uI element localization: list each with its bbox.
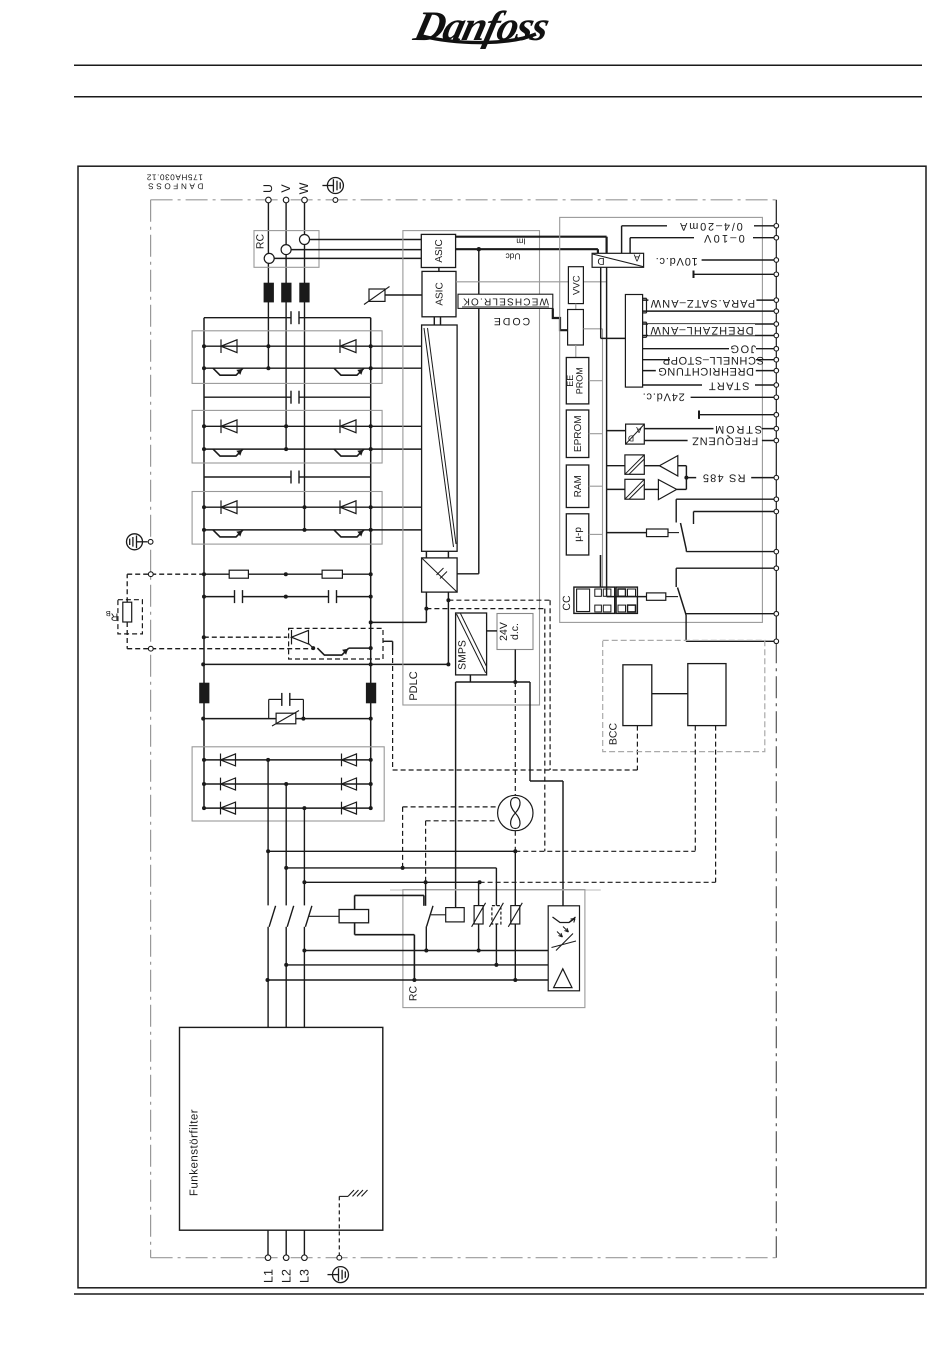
svg-text:VVC: VVC bbox=[571, 275, 582, 295]
terminal L3 bbox=[302, 1255, 308, 1261]
brake diode bbox=[292, 630, 309, 644]
24V pin bbox=[514, 650, 516, 683]
RS485 feed 2 bbox=[607, 488, 625, 490]
IGBT module M2 bbox=[192, 410, 382, 463]
module M3 right IGBT bbox=[334, 530, 364, 537]
svg-text:Funkenstörfilter: Funkenstörfilter bbox=[189, 1109, 201, 1196]
balance resistor wire bbox=[204, 573, 371, 575]
RAM bus stub bbox=[589, 485, 603, 487]
heatsink thermistor bbox=[369, 289, 385, 301]
IGBT module M1 bbox=[192, 331, 382, 384]
VVC box bbox=[568, 267, 583, 304]
svg-text:D: D bbox=[628, 434, 634, 444]
wire chopper to PDLC bbox=[371, 621, 427, 623]
terminal L1 bbox=[265, 1255, 271, 1261]
label STROM bbox=[714, 423, 762, 434]
rectifier row 2 left diode bbox=[221, 778, 236, 791]
terminal PE bottom bbox=[337, 1255, 342, 1260]
D/A converter U2 bbox=[626, 424, 645, 444]
snubber bus 3 bbox=[268, 979, 549, 981]
common terminal 1 bbox=[693, 271, 695, 279]
net A dashed (PDLC to fan line) bbox=[426, 608, 544, 610]
RS485 tx buffer bbox=[658, 480, 676, 500]
common terminal 2 bbox=[698, 411, 700, 419]
svg-text:0–10V: 0–10V bbox=[702, 232, 745, 244]
svg-text:175HA030.12: 175HA030.12 bbox=[146, 173, 203, 182]
footer rule bbox=[74, 1293, 924, 1295]
label FREQUENZ bbox=[688, 435, 762, 446]
contactor coil top wire bbox=[354, 895, 356, 909]
fan motor bbox=[498, 795, 533, 830]
brake gate lead bbox=[383, 640, 393, 642]
svg-text:EPROM: EPROM bbox=[573, 415, 584, 452]
phase tap W junctions bbox=[303, 505, 307, 509]
module M2 left freewheel diode bbox=[221, 420, 237, 434]
rectifier row 2 right diode bbox=[342, 778, 357, 791]
filter output L1 bbox=[267, 1230, 269, 1258]
wire motor V bbox=[285, 200, 287, 449]
relay 2 contact bbox=[676, 567, 776, 569]
rectifier AC input L2 bbox=[285, 784, 287, 905]
RC sensor block bbox=[254, 231, 319, 268]
relay 1 coil bbox=[607, 532, 647, 534]
rectifier row 1 left diode bbox=[221, 754, 236, 767]
code wire (thick) bbox=[553, 308, 568, 330]
EPROM box bbox=[566, 410, 589, 458]
24V to opto wire bbox=[529, 682, 531, 781]
filter capacitor loop bbox=[268, 699, 270, 718]
optocoupler left pin bbox=[425, 592, 427, 622]
wire FREQUENZ bbox=[644, 440, 776, 442]
DC bus rail left bbox=[203, 318, 205, 808]
svg-text:PDLC: PDLC bbox=[408, 671, 420, 700]
terminal V bbox=[283, 197, 289, 203]
svg-text:RC: RC bbox=[255, 234, 267, 250]
svg-text:U: U bbox=[261, 184, 275, 193]
svg-text:W: W bbox=[297, 182, 311, 194]
earth symbol bottom bbox=[328, 1267, 349, 1283]
snubber bus 2 bbox=[286, 964, 548, 966]
control terminal strip rail bbox=[775, 200, 777, 642]
brake IGBT bbox=[311, 646, 315, 650]
svg-text:V: V bbox=[279, 184, 293, 193]
svg-text:A: A bbox=[633, 251, 640, 262]
SMPS box bbox=[456, 613, 487, 675]
header rule 2 bbox=[74, 96, 922, 98]
svg-text:DANFOSS: DANFOSS bbox=[146, 182, 204, 191]
SMPS output wire bbox=[469, 675, 471, 682]
wire 24Vdc bbox=[691, 396, 777, 398]
fuse U bbox=[264, 283, 273, 302]
wire DC mid link bbox=[203, 663, 448, 665]
bus link mid with capacitor bbox=[204, 396, 291, 398]
digital input wire SCHNELL&#8211;STOPP bbox=[643, 359, 777, 361]
brake resistor RB dashed outline bbox=[118, 600, 142, 634]
thermistor wire bbox=[385, 294, 422, 296]
fuse V bbox=[282, 283, 291, 302]
svg-text:µ-p: µ-p bbox=[573, 527, 584, 542]
digital input wire DREHRICHTUNG bbox=[643, 370, 777, 372]
module M1 emitter row wire bbox=[204, 367, 422, 369]
brake diode feed (dashed) bbox=[204, 636, 287, 638]
label DREHRICHTUNG bbox=[656, 365, 756, 376]
RC snubber box bbox=[403, 890, 585, 1008]
brake chopper dashed box bbox=[289, 628, 383, 659]
wire 10Vdc bbox=[702, 259, 777, 261]
EE PROM box bbox=[566, 358, 589, 404]
fan left upper dashed bbox=[403, 806, 498, 808]
earth symbol left bbox=[127, 534, 148, 550]
sensor circle U bbox=[264, 253, 274, 263]
PDLC power drive logic box bbox=[403, 231, 540, 705]
VVC stub bbox=[575, 304, 577, 310]
enclosure boundary left (dash-dot) bbox=[150, 200, 152, 1258]
interface to bus bbox=[583, 328, 602, 330]
terminal W bbox=[302, 197, 308, 203]
inrush relay contact bbox=[425, 882, 427, 906]
photodiode symbol bbox=[552, 934, 577, 951]
module M2 diode row wire bbox=[204, 425, 422, 427]
RB wire to DC+ (dashed) bbox=[126, 574, 128, 602]
digital input block bbox=[625, 295, 642, 388]
WECHSELR.OK box bbox=[458, 294, 553, 308]
varistor 2 dashed bbox=[495, 868, 497, 906]
RB wire to chopper (dashed) bbox=[126, 622, 128, 649]
terminal PE top bbox=[333, 198, 338, 203]
svg-text:DREHRICHTUNG: DREHRICHTUNG bbox=[658, 365, 754, 377]
internal gray bus bbox=[456, 281, 607, 283]
svg-text:DREHZAHL–ANW: DREHZAHL–ANW bbox=[649, 324, 753, 336]
svg-text:SMPS: SMPS bbox=[457, 640, 469, 670]
inrush relay coil bbox=[431, 914, 446, 916]
BCC out 2 dashed bbox=[715, 726, 717, 883]
label PARA.SATZ&#8211;ANW bbox=[648, 297, 756, 308]
gate driver stubs bbox=[433, 317, 435, 325]
wire Im (thick) bbox=[456, 236, 607, 238]
snubber bus 1 bbox=[304, 950, 548, 952]
svg-text:WECHSELR.OK: WECHSELR.OK bbox=[462, 296, 549, 307]
memory bus bbox=[602, 329, 604, 587]
gate driver box bbox=[422, 325, 458, 551]
svg-text:Im: Im bbox=[516, 236, 525, 246]
svg-text:24Vd.c.: 24Vd.c. bbox=[642, 390, 685, 402]
DC choke left bbox=[200, 683, 209, 703]
DC link capacitor right bbox=[329, 590, 337, 603]
balance resistor left bbox=[229, 570, 248, 578]
SMPS to 24V link bbox=[487, 630, 497, 632]
contactor coil link bbox=[308, 915, 339, 917]
RB terminal bottom bbox=[148, 646, 153, 651]
relay 2 coil bbox=[607, 596, 647, 598]
phototransistor symbol bbox=[553, 917, 576, 923]
phase tap V junctions bbox=[284, 424, 288, 428]
RS485 rx buffer bbox=[659, 456, 677, 476]
&#181;-p bus stub bbox=[589, 533, 603, 535]
fan left lower dashed bbox=[426, 820, 498, 822]
brake resistor RB bbox=[123, 602, 132, 622]
CPU to digital block wire bbox=[600, 267, 602, 338]
module M2 right freewheel diode bbox=[340, 420, 356, 434]
svg-text:CODE: CODE bbox=[492, 315, 530, 327]
sensor circle V bbox=[281, 245, 291, 255]
digital input wire PARA.SATZ&#8211;ANW bbox=[643, 299, 777, 301]
balance resistor right bbox=[322, 570, 342, 578]
label 0-10V bbox=[694, 232, 753, 243]
module M3 left freewheel diode bbox=[221, 500, 237, 514]
module M2 right IGBT bbox=[334, 449, 364, 456]
svg-text:ASIC: ASIC bbox=[435, 282, 446, 305]
sensor circle W bbox=[300, 235, 310, 245]
drawing number text DANFOSS 175HA030.12 bbox=[146, 173, 204, 191]
branch U line bbox=[268, 850, 515, 852]
DC link capacitor left bbox=[235, 590, 243, 603]
branch W dashed continuation bbox=[480, 881, 716, 883]
CPU peripheral bus bbox=[606, 267, 608, 596]
svg-text:L1: L1 bbox=[261, 1269, 275, 1283]
filter PE dashed bbox=[338, 1196, 340, 1257]
wire V sense to ASIC bbox=[291, 249, 421, 251]
wire W sense to ASIC bbox=[310, 239, 422, 241]
wire STROM bbox=[644, 428, 776, 430]
module M3 right freewheel diode bbox=[340, 500, 356, 514]
label JOG bbox=[729, 343, 756, 354]
filter output L3 bbox=[303, 1230, 305, 1258]
svg-text:ASIC: ASIC bbox=[434, 239, 445, 262]
RAM box bbox=[566, 465, 589, 508]
svg-text:RC: RC bbox=[408, 986, 420, 1002]
keypad display unit bbox=[574, 587, 615, 613]
RS485 optocoupler 2 bbox=[625, 479, 644, 499]
IGBT module M3 bbox=[192, 492, 382, 545]
filter output L2 bbox=[285, 1230, 287, 1258]
RS485 junction bbox=[685, 466, 687, 490]
label DREHZAHL&#8211;ANW bbox=[648, 324, 755, 335]
label START bbox=[702, 381, 755, 391]
enclosure boundary bottom (dash-dot) bbox=[151, 1257, 776, 1259]
contactor coil bbox=[339, 910, 369, 923]
RFI filter box bbox=[180, 1027, 383, 1230]
rectifier AC input L1 bbox=[267, 760, 269, 906]
svg-text:Udc: Udc bbox=[505, 251, 521, 261]
svg-text:JOG: JOG bbox=[729, 342, 756, 354]
triangle symbol bbox=[554, 969, 572, 988]
ASIC link bbox=[438, 268, 440, 272]
svg-text:RAM: RAM bbox=[573, 475, 584, 497]
control card outline bbox=[560, 217, 763, 622]
driver isolation stubs bbox=[425, 551, 427, 558]
BCC out 1 dashed bbox=[694, 726, 696, 852]
module M2 left IGBT bbox=[213, 449, 243, 456]
diagram outer border bbox=[78, 166, 926, 1288]
contactor blade 2 bbox=[287, 906, 294, 927]
terminal L2 bbox=[283, 1255, 289, 1261]
Danfoss logo bbox=[409, 4, 554, 50]
module M1 diode row wire bbox=[204, 345, 422, 347]
svg-text:0/4–20mA: 0/4–20mA bbox=[678, 220, 743, 232]
varistor 3 bbox=[514, 851, 516, 906]
svg-text:STROM: STROM bbox=[713, 423, 762, 435]
ASIC 2 bbox=[422, 271, 456, 316]
svg-text:FREQUENZ: FREQUENZ bbox=[691, 434, 758, 446]
BCC module 1 bbox=[623, 665, 652, 726]
wire motor U bbox=[267, 200, 269, 368]
chassis separator gray bbox=[390, 889, 601, 891]
rectifier row 3 wire bbox=[204, 807, 371, 809]
rectifier row 1 wire bbox=[204, 759, 371, 761]
module M3 emitter row wire bbox=[204, 529, 422, 531]
BCC box dashed bbox=[603, 640, 765, 751]
EE|PROM bus stub bbox=[589, 380, 603, 382]
terminal PE left bbox=[148, 539, 153, 544]
label 0/4-20mA bbox=[667, 220, 754, 232]
&#181;-p box bbox=[566, 514, 589, 555]
keypad button unit bbox=[616, 587, 637, 613]
svg-text:BCC: BCC bbox=[608, 722, 620, 745]
fuse W bbox=[300, 283, 309, 302]
digital input wire DREHZAHL&#8211;ANW bbox=[643, 323, 777, 325]
net B dashed (PDLC to charge circuit) bbox=[448, 599, 550, 601]
RB terminal top bbox=[148, 572, 153, 577]
svg-text:L3: L3 bbox=[298, 1269, 312, 1283]
wire motor W bbox=[304, 200, 306, 530]
Udc sense line bbox=[478, 249, 480, 574]
wire Udc (thick) bbox=[456, 248, 598, 250]
line sense optocoupler box bbox=[548, 906, 579, 991]
BCC module 2 bbox=[688, 664, 726, 726]
interface to EEPROM stub bbox=[575, 345, 577, 358]
svg-text:A: A bbox=[636, 425, 642, 435]
digital input wire JOG bbox=[643, 348, 777, 350]
ASIC 1 bbox=[421, 234, 455, 267]
enclosure boundary top (dash-dot) bbox=[151, 199, 777, 201]
EPROM bus stub bbox=[589, 433, 603, 435]
label RB bbox=[106, 609, 119, 623]
svg-text:START: START bbox=[707, 380, 749, 392]
svg-text:PROM: PROM bbox=[575, 367, 585, 394]
DC link capacitor wire bbox=[204, 596, 371, 598]
rectifier row 2 wire bbox=[204, 783, 371, 785]
rectifier AC input L3 bbox=[303, 808, 305, 905]
D/A converter U1 bbox=[592, 253, 644, 267]
module M1 left IGBT bbox=[213, 368, 243, 375]
digital input wire START bbox=[643, 384, 777, 386]
branch W line bbox=[304, 881, 479, 883]
rectifier row 1 right diode bbox=[342, 754, 357, 767]
contactor blade 3 bbox=[305, 906, 312, 927]
rectifier row 3 right diode bbox=[342, 802, 357, 815]
bus link lower with capacitor bbox=[204, 476, 291, 478]
module M3 diode row wire bbox=[204, 506, 422, 508]
fan feed dashed bbox=[514, 682, 516, 795]
svg-text:D: D bbox=[597, 255, 604, 266]
contactor blade 1 bbox=[269, 906, 276, 927]
module M3 left IGBT bbox=[213, 530, 243, 537]
bus varistor bbox=[276, 710, 296, 727]
wire bus RC filter bbox=[203, 718, 371, 720]
analog out 1 wire bbox=[621, 226, 623, 254]
module M1 left freewheel diode bbox=[221, 339, 237, 353]
RS485 feed 1 bbox=[607, 465, 625, 467]
bus to keypad bbox=[600, 555, 602, 587]
svg-text:d.c.: d.c. bbox=[509, 623, 521, 640]
earth symbol top bbox=[322, 178, 343, 194]
svg-text:EE: EE bbox=[565, 375, 575, 387]
rectifier row 3 left diode bbox=[221, 802, 236, 815]
svg-text:PARA.SATZ–ANW: PARA.SATZ–ANW bbox=[650, 297, 756, 309]
svg-text:10Vd.c.: 10Vd.c. bbox=[655, 255, 698, 267]
rectifier bridge box bbox=[192, 747, 384, 821]
label SCHNELL&#8211;STOPP bbox=[670, 354, 756, 365]
relay 1 contact bbox=[676, 498, 776, 500]
module M1 right freewheel diode bbox=[340, 339, 356, 353]
control terminal circles bbox=[774, 224, 779, 229]
svg-text:L2: L2 bbox=[280, 1269, 294, 1283]
optocoupler right pin bbox=[447, 592, 449, 664]
contactor coil return bbox=[354, 923, 356, 935]
label RS 485 bbox=[696, 472, 751, 483]
fan bottom dashed bbox=[514, 831, 516, 852]
phase tap U junctions bbox=[266, 344, 270, 348]
svg-text:RS 485: RS 485 bbox=[702, 472, 746, 484]
RS485 optocoupler 1 bbox=[625, 455, 644, 474]
wire RS485 bbox=[686, 477, 776, 479]
driver interface box bbox=[568, 310, 584, 346]
bus link top with capacitor bbox=[204, 317, 291, 319]
DC bus rail right bbox=[370, 318, 372, 808]
svg-text:CC: CC bbox=[561, 595, 573, 611]
chassis ground glyph bbox=[339, 1195, 348, 1197]
wire U sense to ASIC bbox=[274, 257, 421, 259]
net gate dashed (chopper gate to BCC) bbox=[392, 650, 394, 770]
BCC link bbox=[652, 693, 688, 695]
module M1 right IGBT bbox=[334, 368, 364, 375]
terminal U bbox=[266, 197, 272, 203]
DC choke right bbox=[366, 683, 375, 703]
header rule 1 bbox=[74, 64, 922, 66]
enclosure boundary right lower (dash-dot) bbox=[775, 641, 777, 1257]
analog out 2 wire bbox=[629, 238, 631, 254]
module M2 emitter row wire bbox=[204, 448, 422, 450]
svg-text:SCHNELL–STOPP: SCHNELL–STOPP bbox=[662, 354, 764, 366]
branch V line bbox=[286, 867, 496, 869]
gate optocoupler box bbox=[422, 558, 458, 592]
24V dc box bbox=[497, 614, 533, 650]
D/A 2 feed bbox=[607, 430, 626, 432]
varistor 1 bbox=[478, 882, 480, 906]
